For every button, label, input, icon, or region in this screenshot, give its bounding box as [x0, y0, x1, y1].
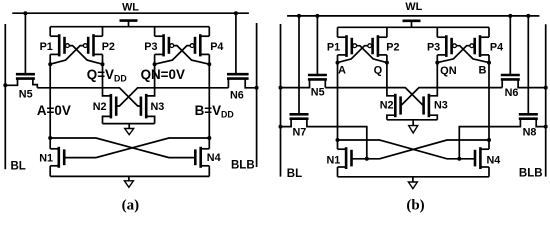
junction node A / N4 gate line	[48, 136, 52, 140]
wire node B horizontal line	[437, 87, 502, 89]
wire N5 source to BL	[5, 79, 17, 86]
wire P4 gate cross-couple to P3 drain	[437, 46, 470, 63]
junction P4 drain node	[207, 62, 211, 66]
wire N2 source to ground rail	[387, 115, 395, 120]
transistor N5	[16, 74, 35, 78]
junction P2 drain node	[385, 61, 389, 65]
junction N7 / N1 gate line	[365, 157, 369, 161]
junction WL / N6 gate	[508, 14, 512, 18]
junction P1 drain node	[48, 62, 52, 66]
wire WL down to N6 gate	[235, 13, 237, 74]
transistor P3	[437, 35, 456, 57]
VDD supply symbol	[403, 21, 421, 28]
wire node B vertical	[208, 64, 210, 149]
ground symbol bottom	[408, 177, 417, 189]
wire P2 gate cross-couple to P1 drain	[50, 46, 83, 65]
transistor N3	[141, 94, 146, 119]
wire N3 source to ground rail	[146, 116, 154, 123]
wire N1 gate line from node B	[64, 138, 209, 158]
svg-text:P4: P4	[490, 41, 503, 53]
wire WL down to N8 gate	[527, 16, 529, 114]
transistor N1	[338, 147, 352, 169]
transistor N5	[308, 75, 327, 79]
junction P3 drain node	[153, 62, 157, 66]
transistor P3	[155, 34, 174, 56]
wire P3 drain down	[436, 55, 438, 63]
junction N8 / BLB	[544, 125, 548, 129]
wire N1 source down to ground rail	[49, 166, 51, 177]
transistor N1	[50, 147, 64, 168]
junction P1 drain node	[336, 61, 340, 65]
wire N6 drain to node B	[501, 79, 503, 87]
transistor P1	[50, 34, 69, 56]
VDD rail	[338, 26, 490, 28]
svg-text:P1: P1	[327, 41, 340, 53]
junction N7 / BL	[279, 125, 283, 129]
wire cross-couple into N3 gate	[387, 88, 424, 105]
VDD supply symbol	[120, 21, 138, 27]
svg-text:N5: N5	[311, 86, 325, 98]
svg-text:P3: P3	[427, 41, 440, 53]
wire P3 drain down	[154, 54, 156, 64]
svg-text:N1: N1	[326, 154, 340, 166]
wire node A horizontal line	[325, 87, 387, 89]
ground rail bottom	[50, 175, 209, 177]
junction WL / N7 gate	[297, 14, 301, 18]
wire P3 gate cross-couple to P4 drain	[456, 46, 489, 63]
wire N3 drain from node above	[146, 64, 154, 96]
svg-text:BLB: BLB	[231, 159, 255, 171]
transistor N3	[424, 94, 429, 117]
ground rail	[387, 119, 437, 121]
transistor N7	[290, 114, 309, 118]
svg-text:Q: Q	[374, 65, 383, 77]
junction N6 / BLB	[255, 86, 259, 90]
wire node A vertical	[49, 64, 51, 149]
wire VDD rail down to P3 source	[154, 27, 156, 37]
wire N5 drain to node A line	[33, 79, 37, 88]
wire P3 gate cross-couple to P4 drain	[174, 46, 210, 65]
svg-text:BLB: BLB	[519, 168, 543, 180]
wire N4 source down to ground rail	[208, 166, 210, 177]
transistor N6	[227, 74, 249, 78]
junction P2 drain node	[101, 62, 105, 66]
wire P1 gate cross-couple to P2 drain	[357, 46, 387, 63]
wire N6 drain to node B line	[227, 79, 229, 88]
ground rail	[103, 123, 155, 125]
bit line BL	[280, 24, 282, 177]
VDD rail	[50, 26, 209, 28]
ground symbol bottom	[124, 176, 133, 187]
junction P3 drain node	[435, 61, 439, 65]
svg-text:A: A	[338, 65, 346, 77]
wire N4 source down to ground rail	[488, 167, 490, 177]
junction node B / N1 gate line	[487, 138, 491, 142]
svg-text:N8: N8	[523, 127, 537, 139]
junction N6 / BLB	[544, 86, 548, 90]
junction WL / N5 gate	[23, 11, 27, 15]
wire P4 drain down	[488, 55, 490, 63]
junction node B / N1 gate line	[207, 136, 211, 140]
wire N4 gate line from node A	[50, 138, 195, 158]
bit line BLB	[545, 24, 547, 176]
wire N5 drain to node A	[324, 79, 326, 87]
wire N2 drain from node above	[103, 64, 111, 96]
transistor P2	[83, 34, 102, 56]
wire node B horizontal line	[155, 87, 229, 89]
svg-text:A=0V: A=0V	[37, 103, 71, 118]
svg-text:N3: N3	[434, 100, 448, 112]
svg-text:N1: N1	[39, 152, 53, 164]
wire node A horizontal line	[37, 87, 102, 89]
wire N2 source to ground rail	[103, 116, 111, 123]
wire N8 drain over to N4 gate line	[459, 119, 520, 159]
word line WL	[12, 12, 249, 14]
wire VDD rail down to P1 source	[337, 27, 339, 37]
wire WL down to N5 gate	[316, 16, 318, 75]
junction WL / N8 gate	[526, 14, 530, 18]
wire N8 source to BLB	[536, 119, 546, 127]
svg-text:N6: N6	[230, 89, 244, 101]
transistor P2	[368, 35, 387, 57]
word line WL	[287, 15, 539, 17]
svg-text:P4: P4	[210, 41, 223, 53]
transistor P4	[190, 34, 209, 56]
wire P2 gate cross-couple to P1 drain	[338, 46, 368, 63]
svg-text:N2: N2	[380, 100, 394, 112]
junction node A / N4 gate line	[336, 138, 340, 142]
wire VDD rail down to P3 source	[436, 27, 438, 37]
svg-text:N4: N4	[487, 155, 501, 167]
junction WL / N5 gate	[315, 14, 319, 18]
wire WL down to N5 gate	[24, 13, 26, 74]
svg-text:WL: WL	[122, 1, 139, 13]
wire N3 source to ground rail	[429, 115, 437, 120]
transistor N8	[519, 114, 538, 118]
wire N7 source to BL	[281, 119, 292, 127]
wire WL down to N6 gate	[509, 16, 511, 75]
wire N7 drain over to N1 gate line	[307, 119, 367, 159]
junction WL / N6 gate	[234, 11, 238, 15]
svg-text:B: B	[479, 65, 487, 77]
transistor N2	[111, 94, 116, 119]
wire cross-couple into N2 gate	[401, 88, 438, 105]
junction N5 / BL	[3, 83, 7, 87]
wire N1 source down to ground rail	[337, 167, 339, 177]
svg-text:(a): (a)	[122, 198, 140, 214]
ground rail bottom	[338, 176, 490, 178]
transistor N6	[501, 75, 520, 79]
wire N6 source to BLB	[518, 79, 546, 87]
wire VDD rail down to P1 source	[49, 27, 51, 37]
svg-text:N5: N5	[19, 88, 33, 100]
wire P1 drain down	[337, 55, 339, 63]
ground symbol	[409, 120, 418, 133]
svg-text:P2: P2	[102, 41, 115, 53]
svg-text:N2: N2	[93, 101, 107, 113]
wire N3 drain from node above	[429, 63, 437, 96]
wire N2 drain from node above	[387, 63, 395, 96]
svg-text:P2: P2	[386, 41, 399, 53]
wire N6 source to BLB	[245, 79, 256, 88]
wire P1 drain down	[49, 54, 51, 64]
svg-text:N4: N4	[207, 152, 221, 164]
svg-text:QN: QN	[440, 65, 457, 77]
wire P2 drain down	[386, 55, 388, 63]
svg-text:P1: P1	[40, 41, 53, 53]
wire P1 gate cross-couple to P2 drain	[69, 46, 102, 65]
junction N5 / BL	[279, 86, 283, 90]
svg-text:N7: N7	[292, 127, 306, 139]
ground symbol	[125, 124, 134, 135]
wire P4 drain down	[208, 54, 210, 64]
wire cross-couple into N3 gate	[103, 88, 141, 106]
wire node B vertical	[488, 63, 490, 150]
wire WL down to N7 gate	[298, 16, 300, 114]
bit line BLB	[256, 23, 258, 167]
transistor N2	[395, 94, 400, 117]
wire node A vertical	[337, 63, 339, 150]
wire N4 gate line from node A	[338, 140, 477, 159]
transistor N4	[475, 147, 489, 169]
svg-text:N6: N6	[505, 87, 519, 99]
junction N8 / N4 gate line	[457, 157, 461, 161]
wire P4 gate cross-couple to P3 drain	[155, 46, 191, 65]
svg-text:(b): (b)	[406, 198, 424, 214]
transistor P4	[470, 35, 489, 57]
svg-text:N3: N3	[151, 101, 165, 113]
svg-text:WL: WL	[405, 1, 422, 13]
wire VDD rail down to P4 source	[208, 27, 210, 37]
svg-text:P3: P3	[144, 41, 157, 53]
wire VDD rail down to P4 source	[488, 27, 490, 37]
wire VDD rail down to P2 source	[386, 27, 388, 37]
wire N5 source to BL	[281, 79, 310, 87]
wire P2 drain down	[102, 54, 104, 64]
transistor P1	[338, 35, 357, 57]
svg-text:BL: BL	[11, 160, 26, 172]
junction P4 drain node	[487, 61, 491, 65]
svg-text:QN=0V: QN=0V	[141, 67, 185, 82]
svg-text:BL: BL	[287, 168, 302, 180]
bit line BL	[4, 24, 6, 169]
wire cross-couple into N2 gate	[116, 88, 154, 106]
wire VDD rail down to P2 source	[102, 27, 104, 37]
wire N1 gate line from node B	[352, 140, 489, 159]
transistor N4	[195, 147, 209, 168]
